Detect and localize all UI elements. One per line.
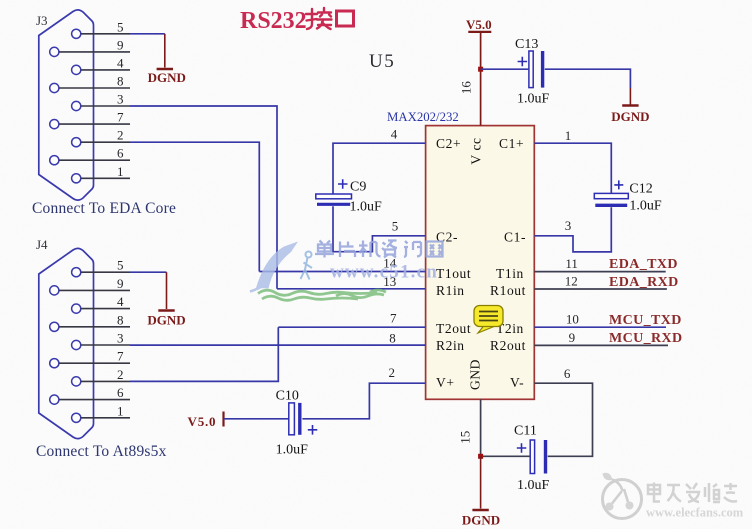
svg-text:9: 9 — [117, 37, 124, 52]
J4 pin 7 lead — [59, 362, 130, 364]
svg-text:5: 5 — [117, 19, 124, 34]
svg-text:MCU_TXD: MCU_TXD — [609, 313, 682, 328]
ground DGND at C13 — [611, 88, 649, 124]
J3 pin 3 lead — [81, 105, 130, 107]
svg-text:1: 1 — [117, 403, 124, 418]
J4 pin 8 lead — [59, 326, 130, 328]
wire junction to C13 — [481, 68, 529, 70]
svg-text:5: 5 — [117, 258, 124, 273]
node junction Vcc/C13 — [478, 67, 483, 72]
power V5.0 top — [466, 17, 492, 32]
svg-text:EDA_TXD: EDA_TXD — [609, 257, 678, 272]
svg-text:11: 11 — [565, 256, 578, 271]
svg-text:Connect To EDA Core: Connect To EDA Core — [32, 200, 176, 217]
svg-text:10: 10 — [566, 312, 579, 327]
ground DGND at J3 — [148, 34, 186, 85]
capacitor C12 — [594, 180, 662, 213]
svg-text:www.c51.cn: www.c51.cn — [330, 262, 438, 283]
J4 pin 2 circle — [72, 377, 81, 386]
J3 pin 2 circle — [72, 138, 81, 147]
J3 pin 6 circle — [50, 156, 59, 165]
capacitor C13 — [515, 37, 550, 107]
wire T2in (pin10) MCU_TXD — [534, 326, 666, 328]
svg-text:6: 6 — [117, 385, 124, 400]
capacitor C11 — [514, 424, 550, 494]
wire J3 pin2 to T1out (pin14) — [130, 142, 259, 271]
wire T1out horizontal — [259, 271, 425, 273]
J3 pin 5 lead — [81, 33, 130, 35]
svg-text:C12: C12 — [629, 182, 652, 197]
wire C2+ (pin4) to C9 — [333, 143, 426, 194]
J3 pin 8 lead — [59, 87, 130, 89]
watermark c51 chinese text — [315, 241, 443, 258]
J3 pin 1 circle — [72, 174, 81, 183]
svg-text:R1in: R1in — [436, 283, 465, 298]
wire V- (pin6) to C11 — [534, 383, 592, 456]
svg-text:DGND: DGND — [462, 513, 500, 528]
svg-text:1.0uF: 1.0uF — [517, 478, 550, 493]
J4 pin 8 circle — [50, 322, 59, 331]
J3 pin 6 lead — [59, 159, 130, 161]
J4 pin 4 lead — [81, 308, 130, 310]
svg-text:C10: C10 — [276, 389, 299, 404]
ground DGND at J4 — [147, 272, 185, 327]
svg-text:U5: U5 — [369, 51, 395, 72]
svg-text:R1out: R1out — [490, 283, 526, 298]
watermark elecfans chinese text — [648, 483, 737, 503]
J4 pin 9 lead — [59, 289, 130, 291]
J4 pin 1 lead — [81, 417, 130, 419]
chip U5 body MAX202/232 — [426, 126, 535, 400]
wire J4 pin3 to R2in (pin8) — [130, 344, 426, 346]
svg-text:16: 16 — [459, 81, 474, 95]
svg-text:1.0uF: 1.0uF — [629, 199, 662, 214]
svg-text:DGND: DGND — [147, 313, 185, 328]
svg-text:www.elecfans.com: www.elecfans.com — [646, 506, 744, 520]
title glyph 接 — [306, 8, 332, 29]
svg-text:T2out: T2out — [436, 321, 471, 336]
svg-text:7: 7 — [390, 311, 397, 326]
svg-text:C1+: C1+ — [499, 136, 524, 151]
svg-text:C1-: C1- — [504, 230, 526, 245]
wire V5.0 to C10 — [224, 418, 289, 420]
watermark c51 swan logo — [250, 242, 312, 292]
J3 pin 2 lead — [81, 141, 130, 143]
J4 pin 3 lead — [81, 344, 130, 346]
svg-text:GND: GND — [468, 359, 483, 390]
wire R2out (pin9) MCU_RXD — [534, 344, 668, 346]
svg-text:5: 5 — [392, 219, 399, 234]
svg-text:4: 4 — [117, 55, 124, 70]
wire Vcc pin16 stem — [480, 32, 482, 126]
svg-text:1: 1 — [117, 164, 124, 179]
svg-text:T1in: T1in — [496, 266, 524, 281]
connector J3 body — [39, 10, 94, 200]
J3 pin 1 lead — [81, 177, 130, 179]
svg-text:7: 7 — [117, 349, 124, 364]
wire J4 pin2 to T2out (pin7) — [130, 327, 278, 381]
wire J3 pin3 to R1in (pin13) — [130, 106, 277, 289]
svg-text:6: 6 — [117, 146, 124, 161]
svg-text:1.0uF: 1.0uF — [276, 443, 309, 458]
svg-text:MAX202/232: MAX202/232 — [387, 110, 459, 124]
svg-text:8: 8 — [389, 330, 396, 345]
J4 pin 9 circle — [50, 286, 59, 295]
watermark green waves — [258, 290, 386, 300]
svg-text:V cc: V cc — [469, 137, 484, 164]
wire C13 to DGND — [545, 69, 631, 88]
J3 pin 8 circle — [50, 83, 59, 92]
svg-text:T1out: T1out — [436, 266, 471, 281]
svg-text:2: 2 — [389, 365, 396, 380]
svg-text:R2in: R2in — [436, 338, 465, 353]
svg-text:DGND: DGND — [148, 70, 186, 85]
capacitor C9 — [316, 179, 382, 214]
svg-text:J3: J3 — [36, 13, 48, 28]
wire R1in horizontal — [277, 288, 426, 290]
J4 pin 1 circle — [72, 413, 81, 422]
svg-text:8: 8 — [117, 312, 124, 327]
svg-text:15: 15 — [458, 431, 473, 444]
svg-text:9: 9 — [117, 276, 124, 291]
wire T2out horizontal — [278, 326, 425, 328]
svg-text:3: 3 — [117, 92, 124, 107]
svg-text:1.0uF: 1.0uF — [517, 92, 550, 107]
svg-text:6: 6 — [564, 366, 571, 381]
J4 pin 2 lead — [81, 380, 130, 382]
svg-text:R2out: R2out — [490, 338, 526, 353]
svg-text:EDA_RXD: EDA_RXD — [609, 275, 679, 290]
svg-text:9: 9 — [569, 330, 576, 345]
svg-text:4: 4 — [117, 294, 124, 309]
svg-text:RS232: RS232 — [240, 8, 307, 34]
node junction GND/C11 — [478, 454, 483, 459]
J4 pin 6 circle — [50, 395, 59, 404]
svg-text:V5.0: V5.0 — [188, 414, 217, 429]
wire J3 pin5 to DGND — [130, 33, 165, 35]
svg-text:1.0uF: 1.0uF — [350, 200, 383, 215]
svg-text:V-: V- — [510, 375, 524, 390]
svg-text:8: 8 — [117, 74, 124, 89]
J3 pin 5 circle — [72, 29, 81, 38]
svg-text:J4: J4 — [36, 237, 48, 252]
J4 pin 5 circle — [72, 268, 81, 277]
J3 pin 9 circle — [50, 47, 59, 56]
J4 pin 5 lead — [81, 271, 130, 273]
svg-text:3: 3 — [117, 331, 124, 346]
note bubble icon — [474, 306, 503, 334]
connector J4 body — [39, 248, 94, 438]
power V5.0 at C10 — [188, 412, 224, 430]
J3 pin 4 lead — [81, 69, 130, 71]
svg-text:C13: C13 — [515, 37, 538, 52]
svg-text:V5.0: V5.0 — [466, 17, 492, 32]
svg-text:2: 2 — [117, 367, 124, 382]
wire C12 to C1- (pin3) — [534, 207, 611, 252]
wire C9 to C2- (pin5) — [333, 206, 426, 252]
J4 pin 6 lead — [59, 399, 130, 401]
svg-text:2: 2 — [117, 128, 124, 143]
svg-text:MCU_RXD: MCU_RXD — [609, 331, 683, 346]
svg-text:DGND: DGND — [611, 109, 649, 124]
svg-text:C2+: C2+ — [436, 136, 461, 151]
J4 pin 7 circle — [50, 359, 59, 368]
svg-text:4: 4 — [391, 127, 398, 142]
ground DGND at bottom — [462, 456, 500, 527]
watermark elecfans logo — [603, 473, 642, 519]
capacitor C10 — [276, 389, 318, 458]
J4 pin 4 circle — [72, 304, 81, 313]
J3 pin 7 lead — [59, 123, 130, 125]
svg-text:1: 1 — [565, 128, 572, 143]
svg-text:V+: V+ — [436, 375, 455, 390]
svg-text:Connect To At89s5x: Connect To At89s5x — [36, 443, 167, 460]
J3 pin 7 circle — [50, 120, 59, 129]
svg-text:C11: C11 — [514, 424, 537, 439]
wire C11 to GND junction — [481, 455, 531, 457]
wire C1+ (pin1) to C12 — [534, 143, 611, 193]
svg-text:C9: C9 — [350, 180, 366, 195]
svg-text:12: 12 — [565, 274, 578, 289]
J4 pin 3 circle — [72, 340, 81, 349]
wire GND pin15 stem — [480, 399, 482, 456]
svg-text:3: 3 — [565, 218, 572, 233]
wire C10 to V+ (pin2) — [302, 383, 425, 419]
J3 pin 4 circle — [72, 65, 81, 74]
title glyph 口 — [337, 11, 354, 26]
wire J4 pin5 to DGND — [130, 271, 167, 273]
J3 pin 3 circle — [72, 101, 81, 110]
J3 pin 9 lead — [59, 51, 130, 53]
svg-text:7: 7 — [117, 110, 124, 125]
wire T1in (pin11) EDA_TXD — [534, 271, 665, 273]
wire R1out (pin12) EDA_RXD — [534, 288, 667, 290]
